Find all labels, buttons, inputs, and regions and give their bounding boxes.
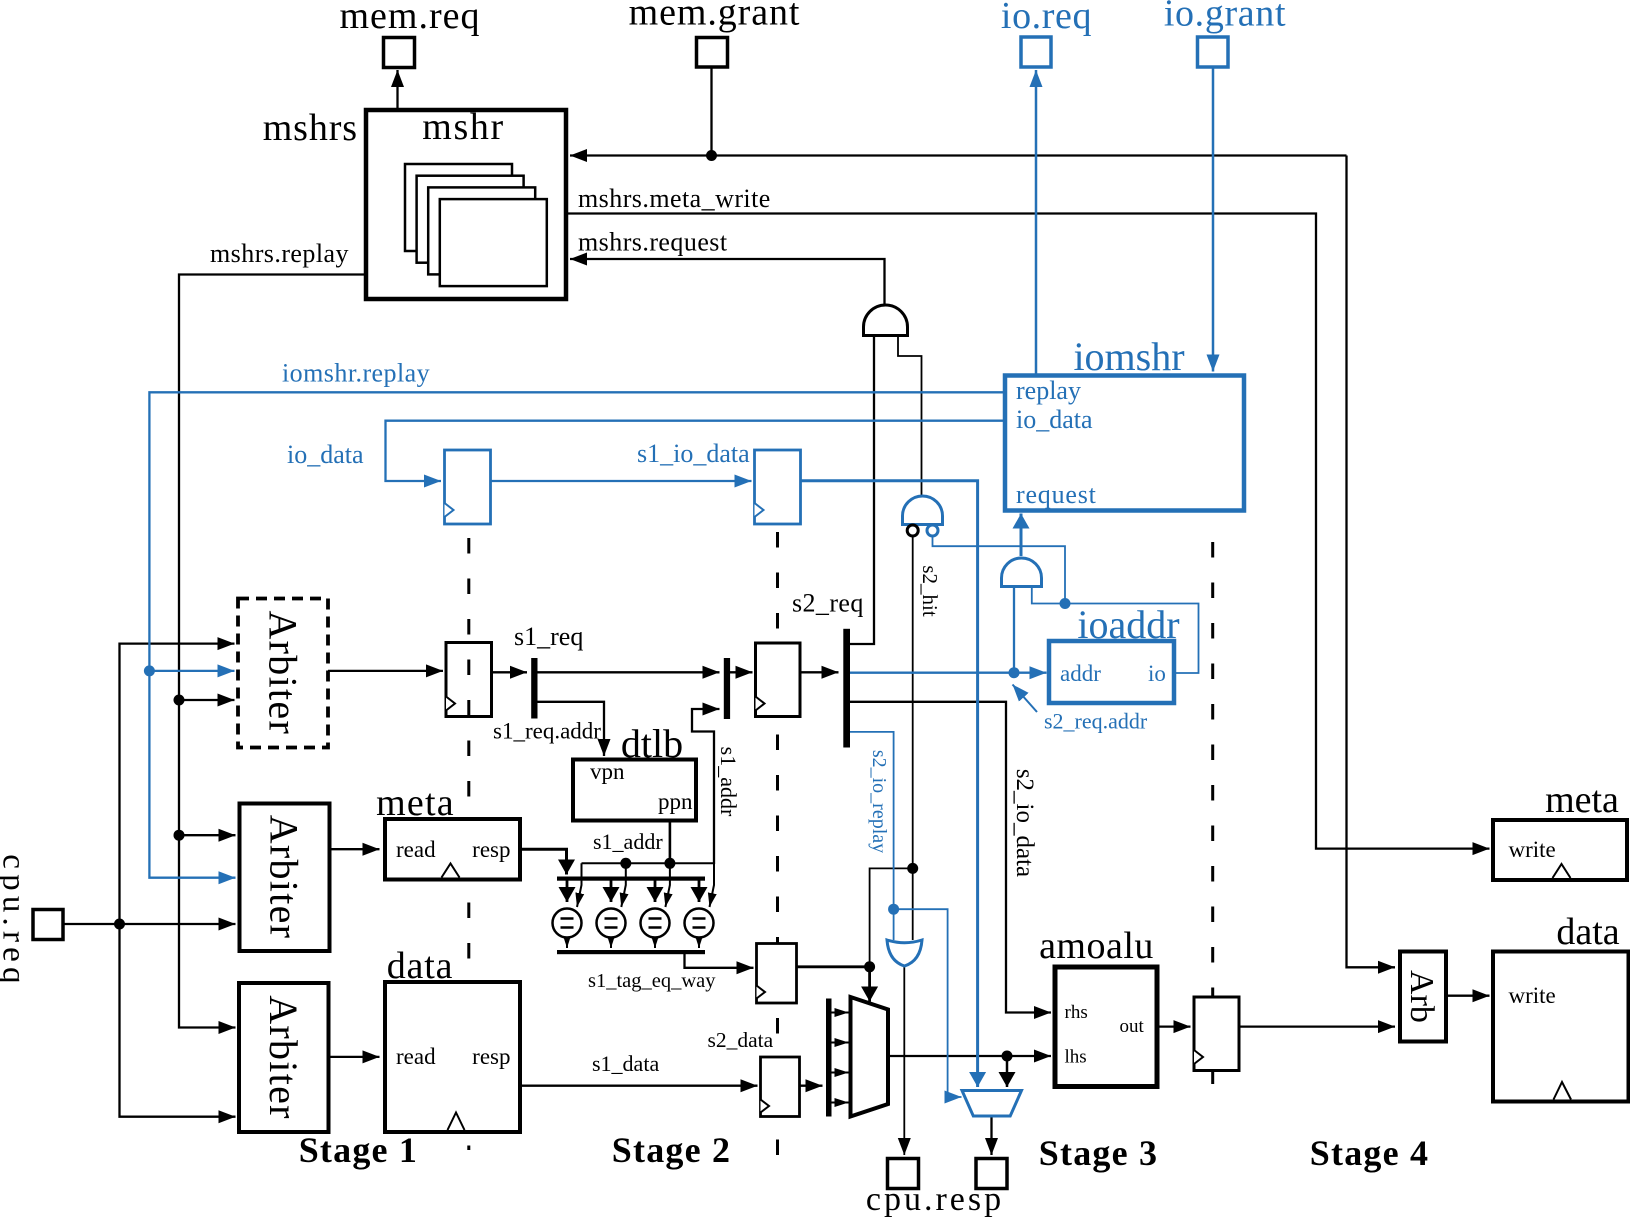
junction lhs branch: [1002, 1051, 1013, 1062]
wire data way 4 into mux M1: [832, 1102, 849, 1104]
svg-text:s1_addr: s1_addr: [716, 747, 741, 817]
wire mshrs.meta_write to stage4 meta: [567, 214, 1490, 849]
wire s2_io_replay from s2_req bus (blue): [850, 732, 894, 940]
register s2_data: [761, 1057, 800, 1117]
wire s2_req.addr to ioaddr (blue): [850, 672, 1047, 674]
svg-text:mem.req: mem.req: [339, 0, 480, 37]
svg-text:s2_io_data: s2_io_data: [1011, 769, 1038, 877]
port mem.req: [384, 38, 415, 68]
wire data way 1 into mux M1: [832, 1012, 849, 1014]
wire Arbiter A3 output to data read: [329, 1056, 380, 1058]
svg-text:request: request: [1016, 480, 1097, 509]
wire io.grant into iomshr (blue): [1212, 67, 1215, 372]
module meta (stage1): [385, 819, 520, 880]
svg-text:s1_tag_eq_way: s1_tag_eq_way: [588, 970, 716, 992]
wire register s2 output to s2_req bus: [800, 671, 839, 673]
module meta (stage4): [1493, 820, 1627, 880]
wire s1_req segment 2: [538, 671, 720, 673]
port io.req (blue): [1021, 37, 1051, 67]
stage boundary dashed line 1 (stage1/2): [467, 538, 470, 1150]
svg-text:io.req: io.req: [1001, 0, 1092, 37]
svg-text:io.grant: io.grant: [1164, 0, 1286, 35]
wire comparator E3 output: [654, 938, 656, 949]
wire OR gate G3 output to cpu.resp port 1: [903, 966, 905, 1155]
wire cpu.req branch up to Arbiter A1: [120, 644, 235, 924]
bus bar meta ways: [557, 877, 705, 881]
wire meta way drop into comparator E2: [610, 881, 613, 903]
bus bar s2_req: [843, 629, 850, 748]
svg-text:cpu.resp: cpu.resp: [866, 1181, 1004, 1218]
svg-text:s2_data: s2_data: [708, 1028, 774, 1052]
wire mshrs.replay branch to Arbiter A2: [179, 834, 236, 836]
port mem.grant: [697, 38, 728, 68]
svg-text:s1_addr: s1_addr: [593, 829, 663, 854]
svg-text:io_data: io_data: [287, 440, 364, 469]
mux M2 (io replay select, blue): [962, 1091, 1022, 1117]
wire s1_addr drop into comparator E4: [710, 863, 715, 907]
svg-text:Arbiter: Arbiter: [262, 815, 307, 940]
arbiter Arb (stage4): [1400, 952, 1446, 1042]
svg-text:iomshr.replay: iomshr.replay: [282, 359, 430, 388]
wire AND gate G4 left input (blue): [1013, 587, 1015, 673]
svg-text:mshrs.meta_write: mshrs.meta_write: [578, 184, 771, 213]
svg-text:Stage 1: Stage 1: [299, 1130, 418, 1170]
wire mux select arrow: [868, 967, 871, 1002]
port io.grant (blue): [1198, 37, 1229, 67]
wire AND gate G4 right input from io net (blue): [1032, 587, 1065, 604]
stage boundary dashed line 2 (stage2/3): [776, 532, 779, 1165]
junction mshrs.replay at A1: [174, 695, 185, 706]
wire meta resp down to way-compare bar: [520, 849, 567, 874]
wire AND gate G1 right input from NOR gate G2: [898, 336, 922, 496]
junction tag/select: [864, 961, 875, 972]
wire ppn from dtlb: [669, 821, 672, 864]
wire mem.req (mshr to mem.req port): [396, 70, 398, 110]
svg-text:s2_hit: s2_hit: [918, 565, 942, 617]
and gate G4 (iomshr.request, blue): [1002, 558, 1042, 587]
wire register s3 output to Arb: [1239, 1025, 1395, 1027]
bubble G2 input 2 (blue): [927, 525, 938, 536]
svg-text:s2_io_replay: s2_io_replay: [868, 750, 890, 853]
wire Arb output to stage4 data write: [1446, 995, 1490, 997]
bus bar s1_tag_eq_way: [557, 950, 705, 954]
svg-text:Arb: Arb: [1403, 970, 1440, 1023]
svg-text:ioaddr: ioaddr: [1077, 602, 1179, 647]
wire Arbiter A2 output to meta read: [330, 848, 380, 850]
wire meta way drop into comparator E1: [566, 881, 569, 903]
svg-text:write: write: [1509, 983, 1556, 1008]
wire s1_addr horizontal: [582, 862, 715, 864]
module ioaddr (blue): [1049, 641, 1174, 703]
wire s2_req to AND gate G1: [850, 337, 874, 645]
and gate G1 (mshrs.request): [864, 305, 908, 336]
svg-text:out: out: [1120, 1016, 1145, 1037]
junction s2_io_replay (blue): [888, 904, 899, 915]
port cpu.resp 1: [888, 1159, 919, 1189]
wire register s2_data output to data bus bar: [800, 1085, 823, 1087]
comparator E3: [641, 909, 670, 938]
wire mshrs.replay trunk: [179, 275, 366, 1028]
wire iomshr.request from AND gate G4 (blue): [1020, 514, 1023, 557]
register s3 (amoalu output): [1194, 997, 1239, 1071]
junction mshrs.replay at A2: [174, 830, 185, 841]
module data (stage1): [385, 982, 520, 1132]
svg-text:mem.grant: mem.grant: [629, 0, 801, 34]
wire amoalu out to register s3: [1157, 1025, 1191, 1027]
wire mux M1 output to amoalu lhs: [888, 1055, 1051, 1057]
wire s1_addr drop into comparator E1: [577, 863, 582, 907]
junction s1_addr / ppn: [664, 858, 675, 869]
junction iomshr.replay (blue): [144, 665, 155, 676]
svg-text:vpn: vpn: [590, 759, 625, 784]
wire s1_addr drop into comparator E3: [665, 863, 670, 907]
svg-text:data: data: [387, 945, 454, 987]
svg-text:s1_io_data: s1_io_data: [637, 439, 750, 468]
svg-text:Arbiter: Arbiter: [260, 610, 305, 735]
wire data way 2 into mux M1: [832, 1042, 849, 1044]
wire mshrs.request from AND gate G1: [570, 259, 885, 304]
svg-text:mshrs: mshrs: [263, 107, 358, 149]
wire s1_io_data register chain (blue): [491, 480, 752, 482]
svg-text:resp: resp: [472, 1044, 510, 1069]
wire cpu.req to Arbiter A2: [63, 923, 236, 925]
svg-text:io_data: io_data: [1016, 405, 1093, 434]
arbiter A2: [240, 804, 330, 952]
wire s2_hit from NOR bubble down to OR gate G3: [912, 537, 914, 941]
wire io.req from iomshr (blue): [1035, 70, 1038, 375]
svg-text:mshrs.request: mshrs.request: [578, 228, 728, 257]
comparator E1: [553, 909, 582, 938]
svg-text:data: data: [1556, 911, 1619, 953]
port cpu.req: [33, 910, 63, 940]
svg-text:iomshr: iomshr: [1073, 334, 1184, 379]
bus tick s2 concat: [724, 658, 730, 719]
junction io net (blue): [1060, 598, 1071, 609]
svg-text:dtlb: dtlb: [621, 721, 683, 766]
stage boundary dashed line 3 (stage3/4): [1211, 542, 1214, 1090]
svg-text:addr: addr: [1060, 661, 1101, 686]
wire mem.grant drop from port: [710, 67, 712, 156]
wire io_data loop from iomshr (blue): [386, 421, 1006, 481]
comparator E2: [597, 909, 626, 938]
register s2_io_data (blue): [755, 450, 801, 524]
svg-text:s1_req: s1_req: [514, 622, 583, 651]
mux M1 (data way select): [851, 997, 889, 1117]
svg-text:s2_req: s2_req: [792, 589, 864, 618]
junction mem.grant: [706, 150, 717, 161]
wire meta way drop into comparator E4: [698, 881, 701, 903]
wire ioaddr io output loop (blue): [1065, 604, 1199, 674]
register s2: [756, 643, 801, 717]
svg-text:mshr: mshr: [422, 106, 504, 148]
wire cpu.req branch down to Arbiter A3: [120, 924, 236, 1117]
svg-text:rhs: rhs: [1065, 1002, 1088, 1023]
arbiter A3: [239, 983, 329, 1132]
wire s1_req segment 3 into register s2: [730, 671, 753, 673]
wire comparator E2 output: [610, 938, 612, 949]
comparator E4: [685, 909, 714, 938]
wire comparator E1 output: [566, 938, 568, 949]
wire s1_req segment 1: [492, 671, 528, 673]
wire meta way drop into comparator E3: [654, 881, 657, 903]
wire iomshr.replay trunk (blue): [149, 392, 1005, 877]
svg-text:io: io: [1148, 661, 1166, 686]
bus bar s2_data ways: [826, 999, 832, 1117]
svg-text:Arbiter: Arbiter: [261, 995, 306, 1120]
wire mshrs.replay branch to Arbiter A1: [179, 699, 235, 701]
wire mux M2 output to cpu.resp port 2: [990, 1116, 992, 1155]
wire s1_data to register s2_data: [520, 1085, 758, 1087]
wire lhs branch down into mux M2: [1006, 1056, 1009, 1087]
wire register s2_tag output: [797, 965, 870, 968]
svg-text:meta: meta: [1545, 779, 1619, 821]
wire Arbiter A1 output to register s1: [328, 670, 443, 672]
wire s1_addr to concat tick: [692, 709, 720, 864]
svg-text:ppn: ppn: [658, 789, 693, 814]
wire s2_io_data register output down to mux M2 (blue): [801, 481, 978, 1087]
register s1_io_data (blue): [445, 450, 491, 524]
svg-text:write: write: [1509, 837, 1556, 862]
or gate G3 (cpu.resp valid, blue, pointing down): [887, 940, 922, 966]
wire s1_addr drop into comparator E2: [621, 863, 626, 907]
svg-text:replay: replay: [1016, 376, 1081, 405]
svg-text:meta: meta: [376, 782, 455, 824]
wire mem.grant to Arb: [1347, 156, 1396, 968]
junction s2_hit: [907, 863, 918, 874]
port cpu.resp 2: [976, 1159, 1007, 1189]
wire s2_hit branch to mux select: [870, 868, 913, 966]
svg-text:amoalu: amoalu: [1039, 925, 1154, 967]
svg-text:cpu.req: cpu.req: [0, 854, 32, 988]
wire s2_io_data to amoalu rhs: [850, 702, 1051, 1013]
nor gate G2 (blue AND body with input bubbles): [903, 496, 943, 524]
svg-text:s1_req.addr: s1_req.addr: [493, 719, 601, 744]
wire s1_tag_eq_way to register s2_tag: [685, 953, 754, 968]
wire comparator E4 output: [698, 938, 700, 949]
wire iomshr.replay branch to Arbiter A1 (blue): [149, 670, 234, 672]
register s2_tag_eq_way: [757, 944, 797, 1004]
wire io net to NOR gate G2 bubble (blue): [933, 537, 1066, 604]
junction s1_addr / drop2: [620, 858, 631, 869]
bus tick s1_req: [531, 658, 537, 719]
svg-text:resp: resp: [472, 837, 510, 862]
svg-text:Stage 3: Stage 3: [1039, 1133, 1158, 1173]
wire s1_req.addr to dtlb: [538, 702, 605, 756]
arbiter A1 (dashed): [238, 599, 328, 748]
mshr stacked entry squares: [405, 164, 547, 286]
svg-text:lhs: lhs: [1065, 1047, 1087, 1068]
svg-text:Stage 2: Stage 2: [612, 1130, 731, 1170]
svg-text:read: read: [396, 837, 436, 862]
svg-text:s1_data: s1_data: [592, 1051, 659, 1076]
register s1 (pipeline flip-flop after Arbiter): [446, 643, 492, 717]
wire data way 3 into mux M1: [832, 1072, 849, 1074]
svg-text:read: read: [396, 1044, 436, 1069]
junction s2_req.addr (blue): [1009, 667, 1020, 678]
module iomshr (blue): [1005, 376, 1244, 511]
svg-text:Stage 4: Stage 4: [1310, 1133, 1429, 1173]
junction cpu.req: [114, 919, 125, 930]
svg-text:s2_req.addr: s2_req.addr: [1044, 709, 1148, 734]
svg-text:mshrs.replay: mshrs.replay: [210, 239, 349, 268]
annotation arrow s2_req.addr (blue): [1013, 685, 1038, 713]
module data (stage4): [1493, 952, 1629, 1102]
wire mem.grant into mshr: [570, 154, 1347, 156]
wire s2_io_replay branch to mux M2 select (blue): [894, 909, 962, 1097]
module amoalu: [1055, 967, 1157, 1087]
module dtlb: [573, 760, 696, 821]
bubble G2 input 1 (black): [907, 525, 918, 536]
module mshrs/mshr box: [366, 110, 566, 299]
